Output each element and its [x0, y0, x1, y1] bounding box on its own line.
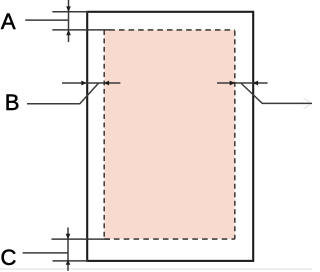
- faint clipped arrow at right leader end: [304, 98, 311, 109]
- dim B-right left-pointing arrow: [253, 81, 259, 86]
- dim B-left left-pointing arrow: [104, 81, 110, 86]
- dim A extension line page-top: [52, 11, 88, 13]
- dim C extension line page-bottom: [53, 260, 89, 262]
- dim C extension line printable-bottom: [52, 238, 111, 240]
- dim C down arrow: [66, 234, 71, 240]
- svg-text:C: C: [1, 245, 17, 270]
- dim A up arrow: [66, 30, 71, 36]
- svg-text:B: B: [5, 90, 20, 115]
- svg-text:A: A: [1, 9, 16, 34]
- dim A extension line printable-top: [52, 29, 109, 31]
- dim C shaft: [67, 228, 69, 271]
- dim B-right leader: [241, 83, 312, 103]
- dim A down arrow: [66, 6, 71, 12]
- label C leader: [23, 252, 68, 254]
- dim B-right line: [217, 82, 268, 84]
- printable area: [104, 30, 235, 239]
- page outline: [87, 12, 253, 261]
- faint baseline: [0, 268, 312, 270]
- dim B-right right-pointing arrow: [230, 81, 236, 86]
- label A leader: [25, 19, 68, 21]
- dim B-left line: [62, 82, 120, 84]
- dim B-left right-pointing arrow: [81, 81, 87, 86]
- label B leader: [27, 83, 99, 104]
- dim A shaft: [68, 0, 70, 42]
- dim C up arrow: [66, 260, 71, 265]
